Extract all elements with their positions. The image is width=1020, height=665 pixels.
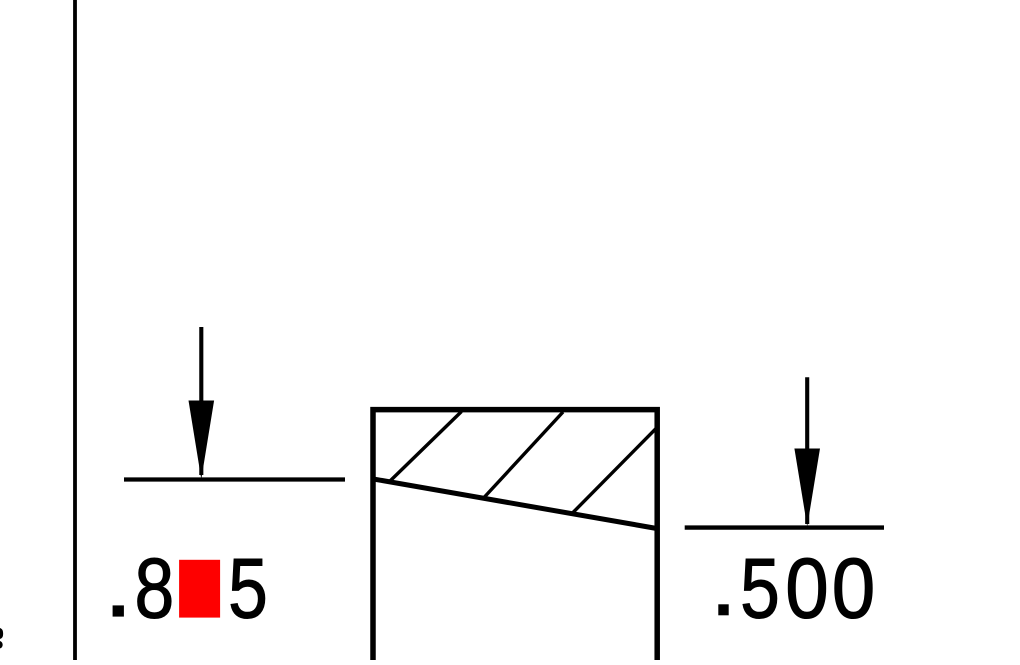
- dim 1 arrowhead: [189, 401, 215, 480]
- dim 1 dimension line: [124, 477, 345, 481]
- section outline (three sides): [373, 410, 657, 662]
- svg-text:0: 0: [785, 542, 828, 637]
- cut-off glyph fragment at left edge: [0, 628, 3, 649]
- svg-text:5: 5: [740, 541, 780, 636]
- svg-text:8: 8: [134, 541, 174, 636]
- redaction red square: [179, 560, 220, 618]
- dim 2 dimension line: [685, 525, 884, 529]
- dim 2 leader shaft: [805, 377, 809, 524]
- svg-text:5: 5: [228, 541, 268, 636]
- dim 2 arrowhead: [794, 449, 820, 527]
- hatch line 1: [389, 412, 462, 483]
- hatch line 3: [573, 427, 658, 513]
- dim 1 text ".8_5": [113, 605, 124, 616]
- svg-text:0: 0: [832, 542, 875, 637]
- dim 2 text ".500": [718, 604, 728, 615]
- dim 1 leader shaft: [199, 327, 203, 475]
- section surface diagonal: [371, 479, 658, 529]
- left vertical object line: [73, 0, 77, 660]
- hatch line 2: [484, 412, 563, 498]
